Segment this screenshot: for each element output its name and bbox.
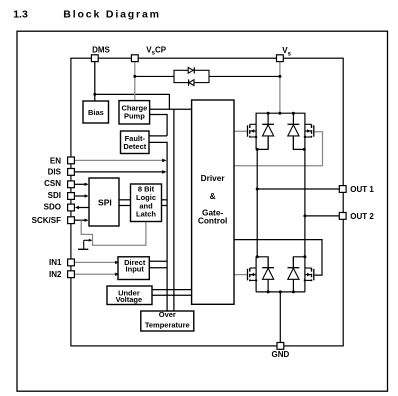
block Direct Input: [118, 257, 149, 280]
pin Vs: [277, 55, 284, 62]
block Charge Pump: [119, 101, 150, 124]
label Driver and Gate-Control: [198, 173, 228, 226]
svg-text:&: &: [210, 191, 216, 201]
node Vs diode junction: [278, 75, 281, 78]
pin OUT1: [339, 186, 346, 193]
label 8 Bit Logic and Latch: [136, 185, 156, 219]
wire SDI to SPI: [75, 195, 87, 197]
svg-text:1.3: 1.3: [13, 9, 28, 21]
svg-text:Block Diagram: Block Diagram: [63, 9, 161, 21]
arrow DIS: [162, 170, 166, 174]
wire bottom rail left: [255, 257, 257, 292]
label Over Temperature: [145, 310, 190, 329]
wire CSN to SPI: [75, 183, 87, 185]
node bus diode left: [267, 112, 270, 115]
pin CSN: [68, 181, 75, 188]
blocks: [83, 100, 234, 331]
block Over Temperature: [141, 311, 194, 331]
wire Vs bus: [256, 113, 305, 149]
node VsCP diode junction: [133, 75, 136, 78]
arrowheads: [75, 159, 167, 276]
pin SDO: [68, 204, 75, 211]
diode D3 body top-left: [262, 113, 274, 149]
pin GND: [277, 343, 284, 350]
node gnd bar 3: [292, 290, 295, 293]
block SPI: [89, 178, 119, 226]
block Fault-Detect: [121, 131, 150, 154]
arrow IN1: [115, 261, 119, 264]
svg-text:SCK/SF: SCK/SF: [32, 216, 61, 225]
transistor T4 low-side right: [304, 268, 314, 282]
node source bar right: [303, 148, 306, 151]
svg-text:VsCP: VsCP: [146, 46, 166, 57]
node gnd bar 1: [267, 290, 270, 293]
node source bar left: [256, 148, 259, 151]
wire charge pump to driver: [149, 108, 192, 110]
svg-text:Input: Input: [126, 264, 145, 273]
svg-text:Driver: Driver: [201, 173, 226, 183]
transistor T3 low-side left: [248, 268, 258, 282]
block 8 Bit Logic and Latch: [131, 184, 162, 222]
node Vs bus junction: [278, 112, 281, 115]
block Under Voltage: [107, 286, 152, 305]
wire fault-detect line 2 and rail A: [149, 142, 167, 311]
svg-text:Detect: Detect: [123, 142, 146, 151]
svg-text:Voltage: Voltage: [116, 295, 143, 304]
wire SCK/SF status-flag branch (gray): [81, 220, 146, 245]
wire gate drive top-left (gray): [234, 130, 247, 132]
wire under voltage to driver line 2: [152, 294, 192, 296]
diode D6 body bottom-right: [288, 257, 300, 292]
wire SCK/SF to SPI: [75, 219, 87, 221]
wire bottom-left drain bar: [256, 257, 268, 268]
wire EN to rail A (gray): [75, 159, 165, 161]
wire latch to rail A lower: [162, 205, 168, 207]
node drain bar left: [256, 255, 259, 258]
wire VsCP vertical (gray): [134, 62, 136, 102]
wire DMS vertical: [94, 62, 96, 101]
wire SDO from SPI: [78, 207, 90, 209]
wire IN1 to direct input (gray): [75, 261, 116, 263]
node drain bar right: [303, 255, 306, 258]
svg-text:Bias: Bias: [88, 108, 104, 117]
block texts: [88, 104, 227, 330]
svg-text:IN1: IN1: [49, 258, 62, 267]
ground: [78, 248, 88, 250]
svg-text:Latch: Latch: [136, 210, 156, 219]
pin SCK/SF: [68, 217, 75, 224]
pin EN: [68, 157, 75, 164]
svg-text:SPI: SPI: [98, 197, 112, 207]
node bus diode right: [292, 112, 295, 115]
node OUT2: [303, 214, 306, 217]
svg-text:SDI: SDI: [48, 191, 61, 200]
pin DMS: [91, 55, 98, 62]
wire fault-detect line 1: [149, 135, 167, 137]
svg-text:Pump: Pump: [124, 112, 145, 121]
node OUT1 column: [256, 149, 258, 256]
wire bottom rail right: [304, 257, 306, 292]
diode D1 D2 parallel pair: [135, 70, 280, 82]
wire ground bar: [256, 291, 305, 293]
pin IN2: [68, 271, 75, 278]
svg-text:OUT 2: OUT 2: [350, 212, 374, 221]
wire charge pump second output: [149, 115, 167, 136]
wire OUT1: [257, 188, 340, 190]
node gnd bar 2: [279, 290, 282, 293]
svg-text:DMS: DMS: [92, 46, 110, 55]
wire DMS branch to rails: [95, 94, 170, 109]
wire gate drive top-right loop (gray): [234, 132, 323, 166]
transistor T1 high-side left: [248, 124, 258, 138]
wire OUT2: [305, 215, 340, 217]
pin VsCP: [131, 55, 138, 62]
transistor T2 high-side right: [304, 124, 314, 138]
wire gate drive bottom-left (gray): [234, 274, 247, 276]
svg-text:SDO: SDO: [44, 203, 61, 212]
label Direct Input: [124, 258, 146, 274]
diode D1: [188, 67, 193, 73]
node OUT2 column: [304, 149, 306, 256]
svg-text:Temperature: Temperature: [145, 320, 190, 329]
node DMS junction: [93, 93, 96, 96]
diode D2: [189, 80, 194, 86]
arrow SCK: [85, 219, 89, 222]
arrow EN: [162, 159, 166, 163]
svg-text:IN2: IN2: [49, 270, 62, 279]
svg-text:OUT 1: OUT 1: [350, 185, 374, 194]
arrow CSN: [85, 183, 89, 186]
wire under voltage to driver line 1: [152, 289, 192, 291]
wire SPI to latch upper: [119, 199, 131, 201]
wire SPI to latch lower: [119, 205, 131, 207]
pin squares: [68, 55, 346, 350]
block Driver Gate-Control: [192, 100, 234, 304]
pin OUT2: [339, 213, 346, 220]
wire GND drop: [279, 292, 281, 343]
wire top-right source bar: [293, 136, 305, 150]
wire latch to rail A upper: [162, 199, 168, 201]
pin SDI: [68, 193, 75, 200]
IC boundary: [71, 58, 343, 346]
wire rail B: [173, 109, 175, 311]
arrow SDI: [85, 194, 89, 197]
wire DIS to rail A: [75, 171, 165, 173]
wire top-left source bar: [256, 136, 268, 150]
wire direct input to rail A line 1: [150, 260, 168, 262]
svg-text:GND: GND: [272, 350, 290, 359]
label Fault-Detect: [123, 134, 146, 151]
svg-text:Control: Control: [198, 216, 228, 226]
svg-text:CSN: CSN: [44, 179, 61, 188]
svg-text:EN: EN: [50, 156, 61, 165]
label Under Voltage: [116, 288, 143, 304]
wire Vs vertical (gray): [279, 62, 281, 113]
block Bias: [83, 101, 109, 123]
wire IN2 to direct input (gray): [75, 273, 116, 275]
svg-text:DIS: DIS: [48, 168, 62, 177]
wire direct input to rail A line 2: [150, 267, 168, 269]
wire bottom-right drain bar: [293, 257, 305, 268]
node OUT1: [256, 188, 259, 191]
pin IN1: [68, 259, 75, 266]
arrow IN2: [115, 273, 119, 276]
diode D5 body bottom-left: [262, 257, 274, 292]
arrow SDO: [75, 206, 79, 209]
diode D4 body top-right: [288, 113, 300, 149]
label Charge Pump: [121, 104, 147, 121]
H-bridge wiring: [234, 113, 340, 342]
wire gate drive bottom-right loop (black): [234, 240, 322, 276]
transistor Q1 status flag open drain: [84, 240, 90, 249]
svg-text:Over: Over: [159, 310, 176, 319]
pin DIS: [68, 169, 75, 176]
